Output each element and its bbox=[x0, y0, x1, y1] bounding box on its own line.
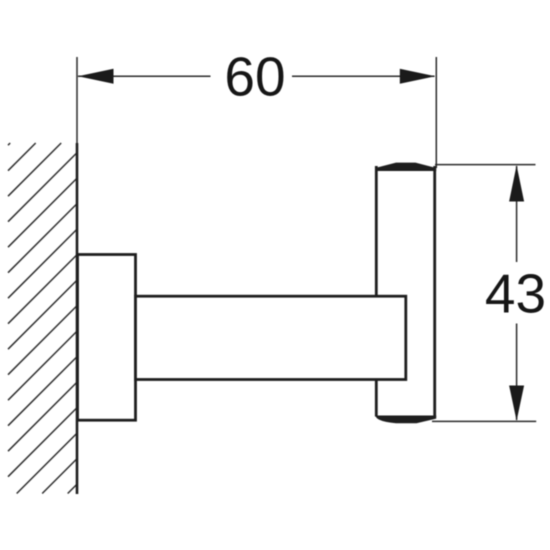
post top cap bbox=[375, 163, 436, 171]
dim line 60 left segment bbox=[78, 75, 211, 77]
extension line right (dim 60) bbox=[435, 57, 437, 168]
arrow down (dim 43) bbox=[509, 386, 524, 421]
extension line top (dim 43) bbox=[435, 164, 536, 166]
extension line bottom (dim 43) bbox=[432, 420, 536, 422]
svg-text:60: 60 bbox=[224, 46, 285, 108]
wall face line bbox=[76, 143, 79, 494]
dim line 43 upper segment bbox=[516, 166, 518, 262]
extension line left (dim 60) bbox=[76, 57, 78, 143]
dim line 60 right segment bbox=[292, 75, 435, 77]
wall plate bbox=[78, 255, 136, 421]
post bottom cap bbox=[375, 416, 436, 424]
svg-text:43: 43 bbox=[485, 263, 546, 325]
post left edge bbox=[375, 166, 378, 417]
dim line 43 lower segment bbox=[516, 324, 518, 421]
arrow up (dim 43) bbox=[509, 165, 524, 201]
arrow left (dim 60) bbox=[78, 69, 114, 84]
arm bbox=[136, 296, 406, 379]
post right edge bbox=[433, 166, 436, 417]
arrow right (dim 60) bbox=[400, 69, 436, 84]
wall hatching bbox=[8, 143, 77, 494]
